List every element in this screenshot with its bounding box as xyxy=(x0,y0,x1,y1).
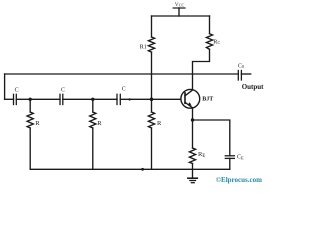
resistor R (first) xyxy=(27,112,33,128)
wire CE bottom xyxy=(229,158,231,169)
resistor R1 xyxy=(148,37,154,52)
wire base line segment 3 xyxy=(63,98,117,100)
wire feedback drop at left xyxy=(4,74,6,99)
wire base line segment 1 xyxy=(5,98,14,100)
svg-text:C: C xyxy=(122,87,126,93)
node junction R1 and third R xyxy=(150,98,154,102)
wire third R bottom xyxy=(151,128,153,169)
svg-text:C: C xyxy=(15,88,19,94)
capacitor C0 xyxy=(238,71,241,81)
capacitor C (third) xyxy=(117,94,120,104)
wire second R bottom xyxy=(92,128,94,169)
wire emitter down to junction xyxy=(192,108,194,120)
power Vcc symbol xyxy=(173,8,185,16)
capacitor C (second) xyxy=(60,94,63,104)
svg-text:R: R xyxy=(35,120,40,127)
wire bottom ground rail xyxy=(30,168,230,170)
wire second R top xyxy=(92,99,94,112)
wire Rc bottom jog to collector xyxy=(193,49,210,89)
svg-text:CE: CE xyxy=(237,154,244,160)
wire RE bottom xyxy=(192,164,194,170)
node emitter junction xyxy=(191,118,194,121)
wire top supply rail xyxy=(152,15,210,17)
svg-text:BJT: BJT xyxy=(202,96,213,102)
resistor R (third) xyxy=(148,112,154,128)
svg-text:C0: C0 xyxy=(238,63,244,69)
wire first R top xyxy=(29,99,31,112)
transistor Q1 collector inner lead xyxy=(185,90,192,96)
svg-text:C: C xyxy=(61,88,65,94)
svg-text:©Elprocus.com: ©Elprocus.com xyxy=(216,176,262,184)
transistor Q1 base bar xyxy=(184,93,186,103)
node junction second R xyxy=(91,98,94,101)
wire emitter to RE xyxy=(192,120,194,148)
wire output stub xyxy=(241,73,250,75)
wire base line segment 2 xyxy=(16,98,60,100)
transistor Q1 BJT circle xyxy=(181,89,200,108)
wire emitter junction to CE branch xyxy=(193,120,230,156)
wire output line from feedback corner to C0 xyxy=(5,73,239,75)
svg-text:R1: R1 xyxy=(140,45,147,51)
resistor RE xyxy=(189,148,195,164)
svg-text:RC: RC xyxy=(213,39,220,46)
resistor R (second) xyxy=(90,112,96,128)
ground symbol xyxy=(188,169,197,182)
capacitor C (first) xyxy=(14,94,17,104)
capacitor CE xyxy=(225,156,234,159)
svg-text:VCC: VCC xyxy=(175,2,185,8)
resistor Rc xyxy=(206,34,212,50)
wire third R top xyxy=(151,99,153,112)
svg-text:R: R xyxy=(97,120,102,127)
wire base line segment 4 to transistor base xyxy=(120,98,181,100)
node junction first R xyxy=(29,98,32,101)
wire R1 branch top xyxy=(151,16,153,37)
svg-text:R: R xyxy=(157,120,162,127)
wire R1 bottom to base node xyxy=(151,52,153,99)
node small dot on rail xyxy=(141,168,144,171)
wire Rc branch top xyxy=(209,16,211,34)
svg-text:Output: Output xyxy=(242,83,264,91)
node small dot after third capacitor xyxy=(128,98,130,100)
transistor Q1 emitter arrow xyxy=(188,102,192,106)
transistor Q1 emitter inner lead xyxy=(185,102,192,107)
wire first R bottom xyxy=(29,128,31,169)
